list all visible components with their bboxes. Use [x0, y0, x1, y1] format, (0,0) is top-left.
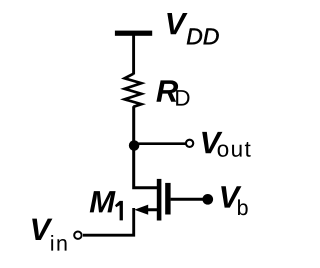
wire: resistor bottom through Vout node to drain corner: [134, 106, 158, 188]
label Vin: in subscript: [51, 235, 66, 251]
wire: VDD bar to resistor top: [132, 35, 135, 75]
junction dot at Vout node: [129, 140, 140, 151]
wire: node to Vout terminal: [134, 142, 186, 145]
gate wire to Vb: [171, 198, 208, 201]
label Vb: V: [221, 186, 241, 207]
Vb terminal dot: [202, 194, 213, 205]
label RD: D subscript: [176, 90, 189, 105]
label RD: R: [156, 80, 178, 101]
source wire: [140, 208, 157, 211]
label Vout: V: [202, 132, 222, 153]
VDD supply bar: [115, 31, 152, 36]
label VDD: V: [167, 13, 187, 34]
label Vin: V: [32, 219, 52, 240]
transistor M1: channel bar: [157, 179, 162, 221]
open terminal circle Vin: [74, 232, 81, 239]
wire: source down and left to Vin terminal: [83, 208, 134, 235]
label VDD: DD subscript: [187, 28, 219, 44]
source arrow of M1: [134, 205, 148, 215]
label Vout: out subscript: [218, 142, 251, 157]
open terminal circle Vout: [186, 140, 193, 147]
resistor R_D zigzag: [125, 74, 142, 107]
label Vb: b subscript: [238, 199, 248, 215]
label M1: M: [90, 191, 116, 212]
label M1: subscript 1: [115, 201, 123, 221]
transistor M1: gate bar: [165, 183, 170, 215]
